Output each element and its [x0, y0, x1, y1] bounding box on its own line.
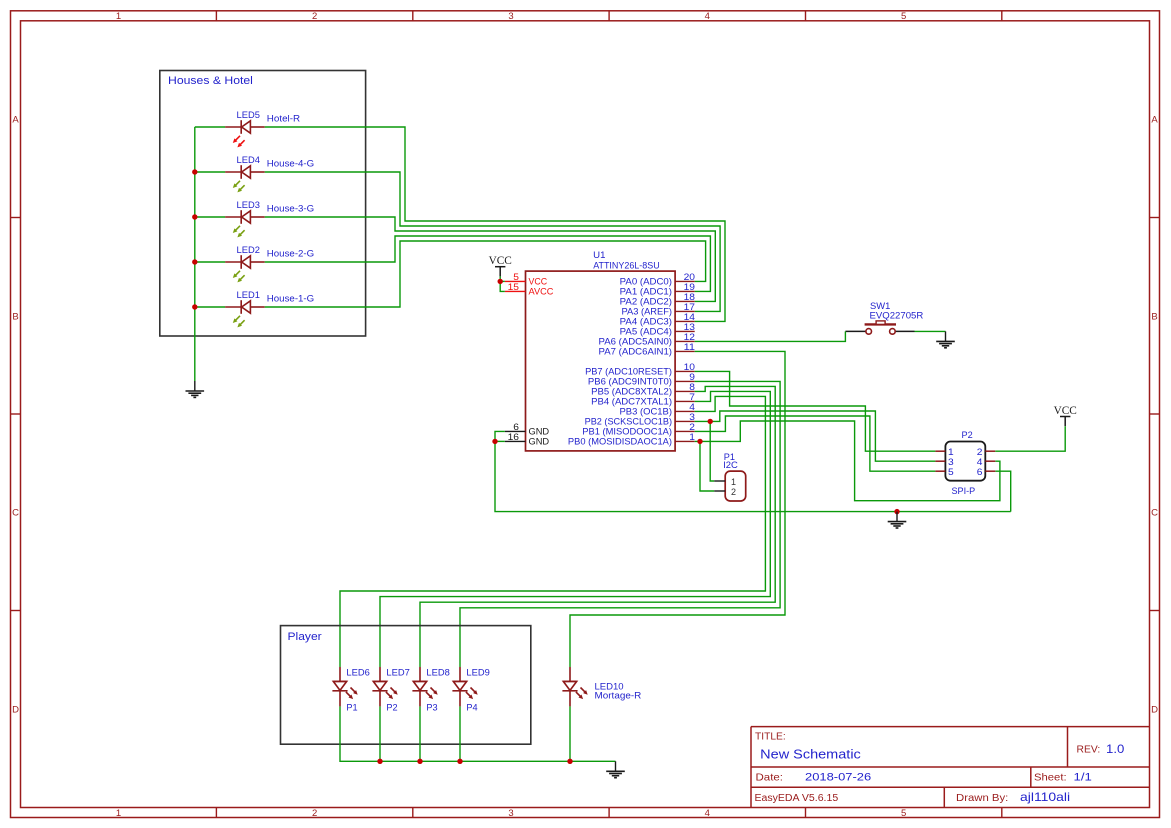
svg-text:LED6: LED6 [346, 668, 369, 678]
wire player GND bus [340, 706, 616, 761]
svg-text:2: 2 [977, 447, 983, 457]
junction houses bus / LED1 [192, 304, 197, 309]
svg-text:6: 6 [513, 422, 519, 432]
wire net U1 pin10 to P2 pin1 [695, 371, 936, 451]
U1 pin 6 stub [505, 430, 526, 432]
LED LED7 [372, 667, 387, 706]
svg-text:20: 20 [684, 272, 695, 282]
svg-text:U1: U1 [593, 250, 605, 260]
svg-text:Mortage-R: Mortage-R [595, 691, 642, 701]
P2 pin 5 stub [935, 470, 945, 472]
svg-text:5: 5 [901, 808, 906, 819]
IC U1 body [526, 271, 676, 451]
svg-text:1: 1 [116, 11, 121, 22]
svg-text:PB6 (ADC9INT0T0): PB6 (ADC9INT0T0) [588, 377, 672, 387]
svg-text:4: 4 [705, 808, 710, 819]
U1 pin 18 stub [675, 300, 695, 302]
U1 pin 2 stub [675, 430, 695, 432]
wire U1 pin16 to rail [495, 440, 505, 442]
svg-text:A: A [12, 115, 19, 126]
wire SW1 to ground [915, 330, 946, 332]
P2 pin 2 stub [985, 450, 995, 452]
svg-text:3: 3 [508, 11, 513, 22]
svg-text:1: 1 [689, 432, 695, 442]
ground SW1 ground [936, 331, 955, 347]
wire net VCC to P2 pin2 [995, 426, 1065, 451]
frame right tick 1 [1150, 217, 1160, 219]
svg-text:PB7 (ADC10RESET): PB7 (ADC10RESET) [585, 367, 672, 377]
wire LED8 to bus [419, 706, 421, 761]
frame top tick 3 [608, 11, 610, 21]
svg-text:D: D [1151, 704, 1158, 715]
svg-text:Houses & Hotel: Houses & Hotel [168, 75, 253, 87]
wire LED4 left [195, 171, 225, 173]
svg-text:2018-07-26: 2018-07-26 [805, 771, 871, 783]
svg-text:B: B [1151, 311, 1157, 322]
wire net U1 pin11 to LED10 [570, 351, 785, 667]
svg-text:2: 2 [312, 11, 317, 22]
svg-text:C: C [12, 508, 19, 519]
P2 pin 4 stub [985, 460, 995, 462]
title block outline [751, 727, 1150, 808]
P1 pin 2 stub [714, 490, 725, 492]
LED5 emission arrows [233, 136, 245, 148]
svg-text:P3: P3 [426, 703, 437, 713]
svg-text:2: 2 [731, 487, 736, 497]
svg-text:PB5 (ADC8XTAL2): PB5 (ADC8XTAL2) [591, 387, 672, 397]
svg-text:P4: P4 [466, 703, 477, 713]
svg-text:VCC: VCC [1054, 405, 1077, 417]
U1 pin 13 stub [675, 330, 695, 332]
LED LED8 [412, 667, 427, 706]
svg-text:PA1 (ADC1): PA1 (ADC1) [620, 287, 672, 297]
U1 pin 19 stub [675, 290, 695, 292]
svg-text:13: 13 [684, 322, 695, 332]
junction VCC / pin5 junction [498, 279, 503, 284]
frame bottom tick 5 [1001, 808, 1003, 818]
svg-text:4: 4 [977, 457, 983, 467]
svg-text:1: 1 [116, 808, 121, 819]
frame bottom tick 4 [805, 808, 807, 818]
junction U1 pin1 / P1 junction [697, 439, 702, 444]
LED4 emission arrows [233, 181, 245, 193]
svg-text:4: 4 [689, 402, 695, 412]
svg-text:PA4 (ADC3): PA4 (ADC3) [620, 317, 672, 327]
U1 pin 20 stub [675, 280, 695, 282]
svg-text:PA0 (ADC0): PA0 (ADC0) [620, 277, 672, 287]
wire LED9 to bus [459, 706, 461, 761]
U1 pin 4 stub [675, 410, 695, 412]
junction U1 pin3 / P1 junction [708, 419, 713, 424]
frame right tick 2 [1150, 413, 1160, 415]
wire net LED1 to U1 pin20 [265, 241, 706, 307]
svg-text:EVQ22705R: EVQ22705R [870, 311, 924, 321]
U1 pin 5 stub [505, 280, 526, 282]
svg-text:PA6 (ADC5AIN0): PA6 (ADC5AIN0) [599, 337, 673, 347]
LED7 emission arrows [386, 688, 398, 700]
junction houses bus / LED2 [192, 259, 197, 264]
svg-text:B: B [12, 311, 18, 322]
svg-text:ATTINY26L-8SU: ATTINY26L-8SU [593, 261, 660, 271]
svg-text:8: 8 [689, 382, 695, 392]
svg-text:LED2: LED2 [237, 245, 260, 255]
svg-text:D: D [12, 704, 19, 715]
wire net U1 pin3 to P2 pin3 [695, 411, 936, 461]
frame top tick 2 [412, 11, 414, 21]
svg-text:14: 14 [684, 312, 695, 322]
wire LED5 left [195, 126, 225, 128]
svg-text:P2: P2 [386, 703, 397, 713]
svg-text:19: 19 [684, 282, 695, 292]
LED2 emission arrows [233, 271, 245, 283]
frame left tick 2 [11, 413, 21, 415]
svg-text:PB4 (ADC7XTAL1): PB4 (ADC7XTAL1) [591, 397, 672, 407]
wire houses GND bus vertical [194, 127, 196, 381]
wire net U1 pin7 to LED7 [380, 391, 770, 667]
svg-text:Sheet:: Sheet: [1034, 773, 1067, 784]
connector P1 I2C body [725, 471, 746, 501]
svg-text:1: 1 [731, 477, 736, 487]
svg-text:LED9: LED9 [466, 668, 489, 678]
svg-text:P2: P2 [962, 430, 973, 440]
svg-text:17: 17 [684, 302, 695, 312]
junction bus / LED9 [457, 759, 462, 764]
junction bus / LED10 [567, 759, 572, 764]
frame top tick 4 [805, 11, 807, 21]
LED LED2 (House-2-G) [225, 255, 265, 269]
LED LED6 [332, 667, 347, 706]
svg-text:LED5: LED5 [237, 110, 260, 120]
svg-text:6: 6 [977, 467, 983, 477]
junction U1 GND junction [492, 439, 497, 444]
wire LED1 left [195, 306, 225, 308]
wire net U1 pin9 to LED9 [460, 381, 780, 667]
svg-text:LED7: LED7 [386, 668, 409, 678]
svg-text:ajl110ali: ajl110ali [1020, 790, 1070, 804]
U1 pin 12 stub [675, 340, 695, 342]
wire net U1 pin12 to SW1 [695, 331, 846, 341]
frame left tick 3 [11, 610, 21, 612]
wire net U1 pin8 to LED8 [420, 386, 775, 667]
svg-text:House-4-G: House-4-G [267, 159, 314, 169]
svg-text:4: 4 [705, 11, 710, 22]
svg-text:5: 5 [901, 11, 906, 22]
wire net U1 pin1 to P2 pin4 [695, 421, 1000, 501]
svg-text:18: 18 [684, 292, 695, 302]
svg-text:House-2-G: House-2-G [267, 249, 314, 259]
LED3 emission arrows [233, 226, 245, 238]
ground rail ground [888, 512, 907, 528]
svg-text:12: 12 [684, 332, 695, 342]
svg-text:SPI-P: SPI-P [952, 486, 976, 497]
wire net P2 pin6 to GND rail [995, 471, 1010, 511]
junction houses bus / LED3 [192, 214, 197, 219]
LED LED9 [452, 667, 467, 706]
svg-text:New Schematic: New Schematic [760, 747, 861, 762]
U1 pin 17 stub [675, 310, 695, 312]
frame bottom tick 1 [215, 808, 217, 818]
junction bus / LED7 [377, 759, 382, 764]
U1 pin 8 stub [675, 390, 695, 392]
frame bottom tick 2 [412, 808, 414, 818]
frame top tick 1 [215, 11, 217, 21]
P2 pin 3 stub [935, 460, 945, 462]
svg-text:PA5 (ADC4): PA5 (ADC4) [620, 327, 672, 337]
svg-text:PA2 (ADC2): PA2 (ADC2) [620, 297, 672, 307]
power symbol VCC at U1 [489, 255, 512, 276]
frame right tick 3 [1150, 610, 1160, 612]
switch SW1 EVQ22705R [845, 321, 914, 334]
wire LED3 left [195, 216, 225, 218]
svg-text:House-1-G: House-1-G [267, 294, 314, 304]
U1 pin 7 stub [675, 400, 695, 402]
svg-text:Drawn By:: Drawn By: [956, 793, 1008, 804]
junction houses bus / LED4 [192, 169, 197, 174]
svg-text:P1: P1 [346, 703, 357, 713]
U1 pin 1 stub [675, 440, 695, 442]
connector P2 SPI-P body [945, 442, 985, 481]
wire net U1 pin3 branch to P1 pin1 [710, 421, 714, 481]
svg-text:A: A [1151, 115, 1158, 126]
svg-text:PB2 (SCKSCLOC1B): PB2 (SCKSCLOC1B) [585, 417, 672, 427]
wire net U1 GND rail [495, 431, 1011, 511]
svg-text:2: 2 [689, 422, 695, 432]
svg-text:3: 3 [508, 808, 513, 819]
U1 pin 16 stub [505, 440, 526, 442]
LED LED10 [562, 667, 577, 706]
LED10 emission arrows [576, 688, 588, 700]
LED1 emission arrows [233, 316, 245, 328]
svg-text:Player: Player [288, 631, 323, 643]
wire LED2 left [195, 261, 225, 263]
svg-text:GND: GND [529, 427, 550, 437]
svg-text:1/1: 1/1 [1074, 772, 1092, 784]
svg-text:Hotel-R: Hotel-R [267, 114, 301, 124]
svg-text:House-3-G: House-3-G [267, 204, 314, 214]
svg-text:AVCC: AVCC [529, 287, 554, 297]
frame left tick 1 [11, 217, 21, 219]
power symbol VCC at P2 [1054, 405, 1077, 426]
U1 pin 11 stub [675, 350, 695, 352]
svg-text:15: 15 [508, 282, 519, 292]
svg-text:EasyEDA V5.6.15: EasyEDA V5.6.15 [755, 793, 839, 804]
svg-text:VCC: VCC [489, 255, 512, 267]
frame bottom tick 3 [608, 808, 610, 818]
svg-text:I2C: I2C [723, 460, 738, 470]
svg-text:PA3 (AREF): PA3 (AREF) [622, 307, 673, 317]
group box Houses & Hotel [160, 71, 366, 337]
svg-text:11: 11 [684, 342, 695, 352]
ground player bus ground [606, 761, 625, 777]
junction bus / LED8 [417, 759, 422, 764]
svg-text:TITLE:: TITLE: [755, 732, 786, 743]
P2 pin 1 stub [935, 450, 945, 452]
U1 pin 14 stub [675, 320, 695, 322]
svg-text:GND: GND [529, 437, 550, 447]
svg-text:Date:: Date: [756, 772, 784, 783]
svg-text:PB3 (OC1B): PB3 (OC1B) [620, 407, 673, 417]
svg-text:PA7 (ADC6AIN1): PA7 (ADC6AIN1) [599, 347, 673, 357]
LED9 emission arrows [466, 688, 478, 700]
svg-text:1.0: 1.0 [1106, 744, 1124, 756]
LED LED3 (House-3-G) [225, 210, 265, 224]
wire LED7 to bus [379, 706, 381, 761]
svg-text:9: 9 [689, 372, 695, 382]
svg-text:LED1: LED1 [237, 290, 260, 300]
wire net U1 pin1 branch to P1 pin2 [700, 441, 714, 491]
svg-text:SW1: SW1 [870, 301, 890, 311]
group box Player [281, 626, 531, 745]
LED6 emission arrows [346, 688, 358, 700]
U1 pin 3 stub [675, 420, 695, 422]
wire LED10 to bus [569, 706, 571, 761]
svg-text:PB0 (MOSIDISDAOC1A): PB0 (MOSIDISDAOC1A) [568, 437, 672, 447]
svg-text:LED4: LED4 [237, 155, 260, 165]
LED8 emission arrows [426, 688, 438, 700]
svg-text:C: C [1151, 508, 1158, 519]
svg-text:3: 3 [689, 412, 695, 422]
wire net VCC to U1 pins 5/15 [500, 276, 505, 291]
wire net LED5 to U1 pin14 [265, 127, 725, 321]
P1 pin 1 stub [714, 480, 725, 482]
wire net U1 pin4 to LED6 [340, 396, 765, 667]
svg-text:5: 5 [513, 272, 519, 282]
frame top tick 5 [1001, 11, 1003, 21]
svg-text:7: 7 [689, 392, 695, 402]
svg-text:2: 2 [312, 808, 317, 819]
svg-text:3: 3 [948, 457, 954, 467]
svg-text:PB1 (MISODOOC1A): PB1 (MISODOOC1A) [582, 427, 672, 437]
LED LED4 (House-4-G) [225, 165, 265, 179]
svg-text:10: 10 [684, 362, 695, 372]
junction GND rail / ground junction [894, 509, 899, 514]
P2 pin 6 stub [985, 470, 995, 472]
svg-text:LED8: LED8 [426, 668, 449, 678]
LED LED1 (House-1-G) [225, 300, 265, 314]
U1 pin 10 stub [675, 370, 695, 372]
LED LED5 (Hotel-R) [225, 120, 265, 134]
U1 pin 9 stub [675, 380, 695, 382]
svg-text:VCC: VCC [529, 277, 548, 287]
U1 pin 15 stub [505, 290, 526, 292]
svg-text:REV:: REV: [1077, 745, 1101, 756]
wire net U1 pin2 to P2 pin5 [695, 416, 936, 471]
wire net LED2 to U1 pin19 [265, 236, 711, 291]
svg-text:16: 16 [508, 432, 519, 442]
ground houses bus ground [186, 381, 205, 397]
wire VCC to pin 5 [500, 280, 505, 282]
svg-text:5: 5 [948, 467, 954, 477]
svg-text:1: 1 [948, 447, 954, 457]
svg-text:LED3: LED3 [237, 200, 260, 210]
wire net LED3 to U1 pin18 [265, 217, 716, 301]
wire net LED4 to U1 pin17 [265, 172, 720, 311]
